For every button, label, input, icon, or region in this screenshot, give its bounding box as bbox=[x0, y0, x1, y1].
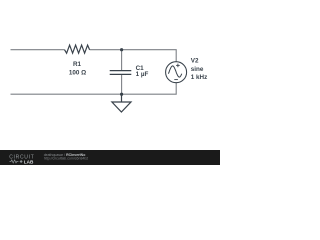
svg-text:V2: V2 bbox=[191, 58, 199, 65]
svg-text:1 kHz: 1 kHz bbox=[191, 74, 207, 81]
svg-text:1 µF: 1 µF bbox=[136, 71, 149, 78]
svg-text:R1: R1 bbox=[73, 61, 82, 68]
svg-text:100 Ω: 100 Ω bbox=[69, 69, 86, 76]
svg-text:sine: sine bbox=[191, 66, 204, 73]
svg-text:LAB: LAB bbox=[24, 159, 34, 164]
svg-text:http://circuitlab.com/c6n84b2: http://circuitlab.com/c6n84b2 bbox=[44, 157, 89, 161]
